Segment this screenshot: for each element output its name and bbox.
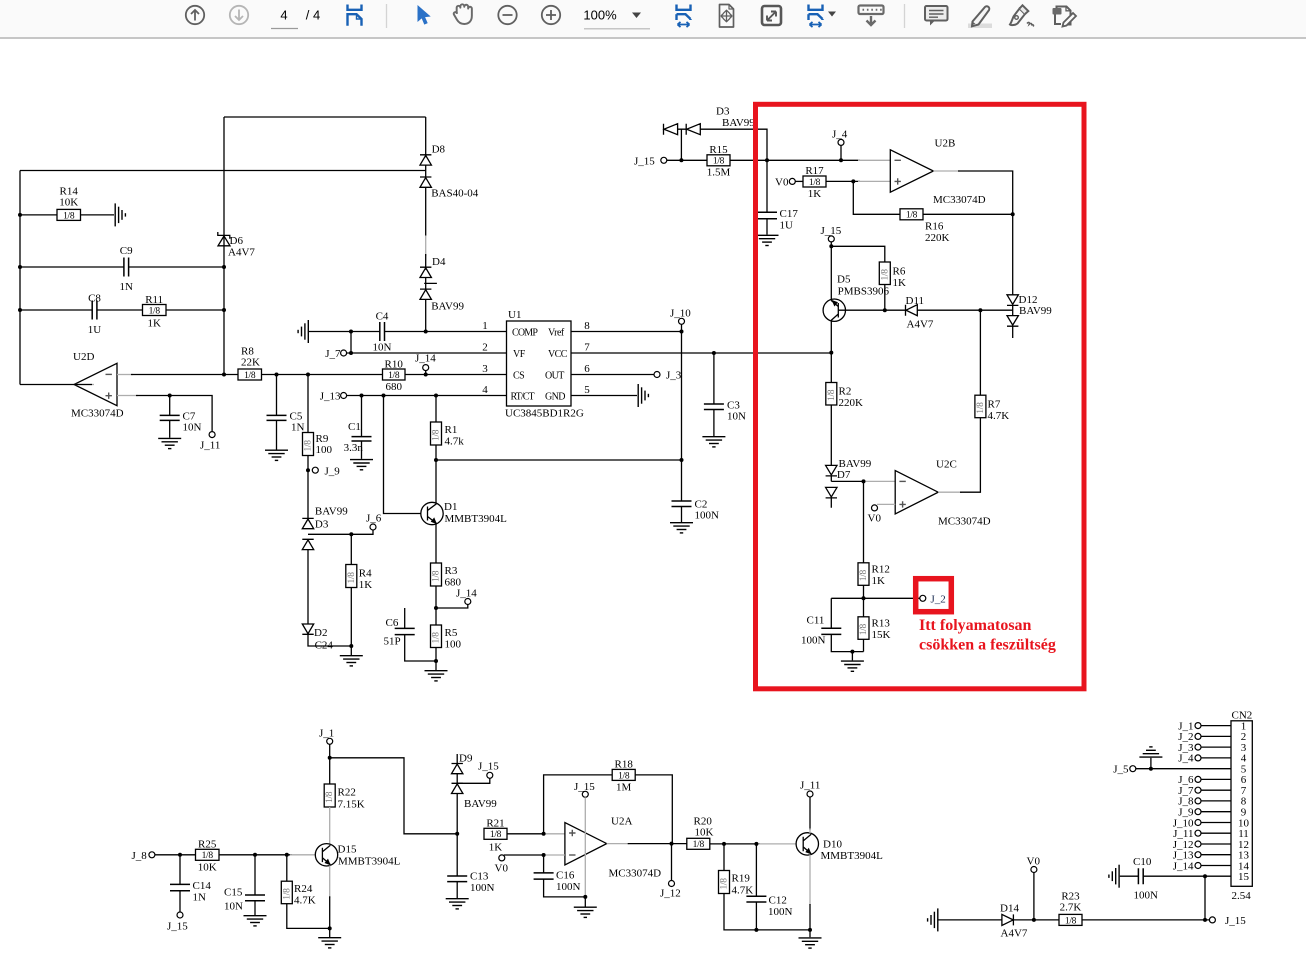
wire C8-R11 net [20, 309, 224, 311]
svg-text:6: 6 [584, 363, 590, 375]
svg-text:/ 4: / 4 [306, 8, 320, 23]
transistor D15 MMBT3904L [315, 844, 400, 929]
connector CN2 [1231, 710, 1252, 903]
svg-text:R10: R10 [385, 359, 404, 371]
svg-text:R13: R13 [872, 618, 891, 630]
svg-text:D9: D9 [459, 753, 473, 765]
svg-text:C24: C24 [315, 640, 334, 652]
svg-text:C13: C13 [470, 871, 489, 883]
svg-text:1/8: 1/8 [906, 211, 918, 221]
wire U2C output to R7 [938, 491, 962, 493]
node J_15 top [634, 156, 667, 168]
separator [904, 4, 906, 28]
node D4-COMP junction [424, 330, 428, 334]
node R19 junction [722, 842, 726, 846]
svg-text:U2C: U2C [936, 459, 957, 471]
fill and sign tool [1053, 7, 1077, 27]
svg-text:BAS40-04: BAS40-04 [431, 187, 479, 199]
wire C9 net [20, 266, 224, 268]
node C2 top junction [680, 458, 684, 462]
resistor R22 [324, 758, 365, 844]
node V0 U2A [495, 855, 509, 875]
node R4-D2 junction [349, 644, 353, 648]
svg-text:R12: R12 [872, 564, 890, 576]
capacitor C11 [801, 598, 864, 651]
diode D3 dual BAV99 [302, 506, 348, 550]
capacitor C16 [534, 855, 586, 897]
svg-text:1/8: 1/8 [149, 306, 161, 316]
svg-text:U2A: U2A [611, 816, 632, 828]
svg-text:MMBT3904L: MMBT3904L [338, 856, 401, 868]
capacitor C8 [88, 293, 102, 337]
svg-text:4.7K: 4.7K [988, 410, 1010, 422]
fit page icon [720, 5, 734, 28]
node R1-C2 junction [434, 458, 438, 462]
node J_2 pin2 [1178, 731, 1231, 743]
ground right of R14 [115, 203, 125, 226]
svg-text:MC33074D: MC33074D [938, 516, 991, 528]
svg-text:J_12: J_12 [660, 888, 681, 900]
wire J_8 to R25 [155, 854, 196, 856]
svg-text:10N: 10N [183, 422, 202, 434]
node J_1 pin1 [1178, 720, 1231, 732]
svg-text:4.7K: 4.7K [732, 885, 754, 897]
svg-text:2: 2 [482, 342, 488, 354]
svg-text:D11: D11 [906, 295, 925, 307]
wire R1 to C2 [436, 459, 682, 461]
node V0 U2C [868, 504, 896, 524]
node rail-C9 junction [18, 265, 22, 269]
svg-text:10K: 10K [695, 827, 714, 839]
svg-text:A4V7: A4V7 [228, 247, 255, 259]
sign tool [1010, 5, 1033, 26]
resistor R5 [431, 608, 462, 661]
svg-text:D2: D2 [314, 627, 327, 639]
node J_9 pin9 [1178, 807, 1231, 819]
ground D10 [799, 930, 822, 948]
svg-text:1/8: 1/8 [693, 840, 705, 850]
svg-text:1/8: 1/8 [976, 402, 986, 414]
node J_2 [920, 594, 946, 606]
ground R4 [340, 646, 363, 666]
svg-text:R19: R19 [732, 873, 751, 885]
page number input [271, 8, 320, 29]
svg-text:10N: 10N [224, 901, 243, 913]
node J_15 bottom right [1209, 915, 1246, 927]
node J_3 [654, 370, 682, 382]
node CS junction [424, 373, 428, 377]
op-amp U2D [71, 351, 124, 420]
transistor D10 MMBT3904L [796, 797, 883, 930]
capacitor C17 [757, 160, 798, 234]
node rail-C8 junction [18, 308, 22, 312]
node J_10 [670, 308, 691, 334]
node pin15 junction [1203, 874, 1207, 878]
node J_15 mid [821, 225, 842, 248]
svg-text:100: 100 [445, 639, 462, 651]
svg-text:100N: 100N [801, 635, 826, 647]
wire V0 to U2A minus [504, 854, 545, 856]
node J_11 pin11 [1173, 828, 1231, 840]
node J_13 pin13 [1173, 850, 1231, 862]
transistor D1 MMBT3904L [421, 460, 507, 563]
node C9-x224 junction [222, 265, 226, 269]
svg-text:1K: 1K [359, 579, 373, 591]
svg-text:D6: D6 [230, 235, 244, 247]
svg-text:GND: GND [545, 392, 565, 403]
svg-text:J_15: J_15 [821, 225, 842, 237]
svg-text:MC33074D: MC33074D [71, 408, 124, 420]
wire COMP net [309, 331, 507, 333]
hand tool [454, 4, 472, 24]
svg-text:1/8: 1/8 [859, 570, 869, 582]
wire GND pin5 [571, 395, 637, 397]
node output J_12 junction [670, 842, 674, 846]
comment tool [925, 6, 948, 26]
diode D14 A4V7 [1000, 903, 1028, 940]
svg-text:J_4: J_4 [1178, 753, 1194, 765]
wire D3 mid to J_6 [308, 530, 373, 534]
svg-text:10N: 10N [727, 411, 746, 423]
node VCC-R2 junction [829, 351, 833, 355]
wire CS net [405, 374, 507, 376]
node J_10 pin10 [1173, 817, 1231, 829]
svg-text:J_13: J_13 [320, 391, 341, 403]
svg-text:1/8: 1/8 [1065, 916, 1077, 926]
node J_1 [319, 728, 334, 760]
svg-text:1M: 1M [616, 782, 632, 794]
diode D2 [302, 550, 351, 652]
svg-text:R7: R7 [988, 399, 1001, 411]
node J_7 [325, 348, 346, 360]
node J_4 junction [839, 158, 843, 162]
wire J_1 to R21 [330, 758, 458, 834]
svg-text:U1: U1 [508, 309, 521, 321]
wire feedback to R16 [853, 181, 900, 214]
svg-text:4: 4 [280, 8, 287, 23]
svg-text:R24: R24 [294, 883, 313, 895]
node J_12 [660, 844, 681, 900]
node J_12 pin12 [1173, 839, 1231, 851]
zoom out [498, 6, 516, 24]
node J_8 [132, 850, 155, 862]
svg-text:R3: R3 [445, 565, 458, 577]
svg-text:R5: R5 [445, 627, 458, 639]
wire U2B output [933, 170, 960, 172]
svg-text:1/8: 1/8 [713, 157, 725, 167]
svg-text:10K: 10K [198, 862, 217, 874]
node J_7 pin7 [1178, 785, 1231, 797]
svg-text:D10: D10 [823, 839, 842, 851]
svg-text:3: 3 [482, 363, 488, 375]
svg-text:C15: C15 [224, 887, 243, 899]
svg-text:10N: 10N [373, 342, 392, 354]
resistor R12 [858, 481, 890, 598]
node VF junction [349, 351, 353, 355]
resistor R6 [879, 262, 906, 310]
scrolling mode icon [859, 6, 884, 26]
svg-text:C17: C17 [780, 208, 799, 220]
svg-text:csökken a feszültség: csökken a feszültség [919, 637, 1056, 654]
node J_11 bottom [800, 780, 820, 798]
wire J_2 net [831, 597, 920, 599]
node R6-base junction [883, 308, 887, 312]
svg-text:C12: C12 [769, 895, 787, 907]
wire J_7 stub [350, 332, 352, 354]
wire VF net [347, 352, 507, 354]
svg-text:BAV99: BAV99 [431, 300, 464, 312]
svg-text:D7: D7 [837, 469, 851, 481]
svg-text:VF: VF [513, 349, 526, 360]
svg-text:R22: R22 [338, 787, 356, 799]
page view icon [348, 5, 362, 26]
previous page button [186, 6, 204, 24]
capacitor C1 [344, 396, 372, 459]
wire left rail [19, 171, 21, 385]
svg-text:100N: 100N [556, 881, 581, 893]
next page button (disabled) [230, 6, 248, 24]
svg-text:C16: C16 [556, 870, 575, 882]
node C7 junction [168, 394, 172, 398]
resistor R9 [303, 375, 333, 519]
resistor R4 [346, 534, 373, 646]
svg-text:1/8: 1/8 [304, 440, 314, 452]
svg-text:J_11: J_11 [200, 440, 220, 452]
wire y171.5 [20, 170, 426, 172]
wire grey segment D8-D4 [425, 236, 427, 256]
svg-text:100N: 100N [470, 882, 495, 894]
svg-text:V0: V0 [868, 513, 882, 525]
node J_15 bottom left [167, 912, 188, 933]
svg-text:1U: 1U [780, 220, 794, 232]
wire R25 to D15 base [219, 854, 292, 856]
wire R16 to output [923, 213, 1013, 215]
node C5 junction [275, 373, 279, 377]
svg-text:1N: 1N [291, 422, 305, 434]
svg-text:4.7K: 4.7K [294, 895, 316, 907]
ground C3 [702, 437, 725, 447]
resistor R20 [687, 816, 714, 851]
node J_13 [320, 391, 347, 403]
svg-text:1: 1 [482, 320, 488, 332]
svg-text:2.54: 2.54 [1232, 890, 1252, 902]
node J_6 [366, 513, 382, 531]
node J_15 U2A power [574, 781, 595, 897]
svg-text:1N: 1N [119, 281, 133, 293]
svg-text:J_15: J_15 [167, 921, 188, 933]
wire R17 to U2B plus [826, 180, 860, 182]
node D10 emitter junction [808, 928, 812, 932]
capacitor C15 [224, 855, 265, 915]
capacitor C4 [373, 311, 392, 354]
node U2A ground junction [583, 895, 587, 899]
diode D12 dual BAV99 [1007, 294, 1052, 338]
svg-text:1/8: 1/8 [282, 888, 292, 900]
svg-text:1/8: 1/8 [202, 851, 214, 861]
svg-text:BAV99: BAV99 [315, 506, 348, 518]
diode D8 dual BAS40-04 [420, 117, 479, 236]
svg-text:MMBT3904L: MMBT3904L [445, 513, 508, 525]
node R1 junction [434, 394, 438, 398]
svg-text:R17: R17 [805, 165, 824, 177]
node J_4 pin4 [1178, 753, 1231, 765]
svg-text:15: 15 [1238, 871, 1250, 883]
svg-text:PMBS3906: PMBS3906 [838, 286, 890, 298]
wire U2A output [607, 843, 629, 845]
svg-text:J_1: J_1 [319, 728, 334, 740]
svg-text:BAV99: BAV99 [464, 798, 497, 810]
wire R20 to D10 base [710, 843, 760, 845]
svg-text:1K: 1K [489, 842, 503, 854]
node V0 top [775, 176, 795, 188]
svg-text:R18: R18 [615, 759, 634, 771]
svg-text:C14: C14 [193, 880, 212, 892]
wire J_15 to R15 [667, 159, 707, 161]
resistor R8 [238, 346, 262, 381]
capacitor C3 [704, 353, 746, 436]
node V0-D14 junction [1032, 918, 1036, 922]
svg-text:100%: 100% [583, 8, 617, 23]
svg-text:1.5M: 1.5M [707, 167, 731, 179]
svg-text:Itt folyamatosan: Itt folyamatosan [919, 617, 1032, 634]
node output-R16 junction [1011, 212, 1015, 216]
diode D9 dual BAV99 [452, 753, 498, 834]
svg-text:1K: 1K [872, 575, 886, 587]
svg-text:J_9: J_9 [325, 466, 341, 478]
svg-text:220K: 220K [925, 232, 950, 244]
capacitor C5 [267, 375, 305, 450]
svg-text:D5: D5 [837, 274, 851, 286]
node R23-J15 junction [1203, 918, 1207, 922]
svg-text:C10: C10 [1133, 856, 1152, 868]
svg-text:100: 100 [316, 444, 333, 456]
resistor R15 [707, 144, 731, 179]
ground C7 [158, 438, 181, 448]
svg-text:Vref: Vref [548, 328, 565, 339]
svg-text:R2: R2 [839, 386, 852, 398]
wire D7 mid to U2C minus [831, 480, 865, 482]
node R12-R13 junction [862, 596, 866, 600]
node D15 emitter junction [328, 926, 332, 930]
resistor R13 [858, 598, 891, 651]
svg-text:1/8: 1/8 [432, 632, 442, 644]
svg-text:2.7K: 2.7K [1060, 902, 1082, 914]
resistor R24 [281, 855, 329, 929]
diode D3 dual BAV99 horizontal [664, 106, 768, 161]
diode D6 A4V7 zener [218, 232, 256, 259]
ground pin5 [638, 384, 648, 407]
svg-text:J_14: J_14 [1173, 860, 1194, 872]
svg-text:J_10: J_10 [670, 308, 691, 320]
svg-text:1/8: 1/8 [859, 624, 869, 636]
svg-text:100N: 100N [695, 510, 720, 522]
diode D11 A4V7 [906, 295, 934, 331]
node J_3 pin3 [1178, 742, 1231, 754]
svg-text:J_14: J_14 [456, 588, 477, 600]
svg-text:1/8: 1/8 [880, 269, 890, 281]
svg-text:1/8: 1/8 [827, 389, 837, 401]
svg-text:J_4: J_4 [832, 129, 848, 141]
svg-text:J_3: J_3 [666, 370, 682, 382]
node J_14 pin14 [1173, 860, 1231, 872]
svg-text:R4: R4 [359, 568, 372, 580]
svg-text:1/8: 1/8 [432, 429, 442, 441]
wire top loop [224, 116, 426, 118]
svg-text:C6: C6 [386, 617, 399, 629]
wire D1 base [384, 396, 422, 514]
svg-text:V0: V0 [775, 176, 789, 188]
svg-text:V0: V0 [1027, 856, 1041, 868]
svg-text:1N: 1N [193, 892, 207, 904]
node C4 left junction [349, 330, 353, 334]
svg-text:RT/CT: RT/CT [511, 392, 535, 403]
svg-text:1K: 1K [808, 188, 822, 200]
svg-text:1/8: 1/8 [720, 878, 730, 890]
capacitor C14 [170, 855, 211, 912]
ground D15 [318, 928, 341, 948]
wire vertical x224 [223, 117, 225, 375]
node D9 junction [455, 832, 459, 836]
resistor R17 [803, 165, 826, 200]
svg-text:C9: C9 [120, 245, 133, 257]
red annotation small box J_2 [916, 579, 952, 612]
svg-text:1/8: 1/8 [244, 371, 256, 381]
node rail-R14 junction [18, 213, 22, 217]
node feedback U2A junction [542, 832, 546, 836]
resistor R11 [143, 294, 167, 330]
wire U2D output [75, 384, 95, 386]
node J_5 pin5 [1113, 764, 1231, 776]
svg-text:8: 8 [584, 320, 590, 332]
node C1 junction [360, 394, 364, 398]
zoom in [542, 6, 560, 24]
svg-text:R15: R15 [709, 144, 728, 156]
wire OUT net [571, 374, 654, 376]
svg-text:J_8: J_8 [132, 850, 148, 862]
red annotation text [919, 617, 1056, 654]
svg-text:V0: V0 [495, 863, 509, 875]
svg-text:J_11: J_11 [800, 780, 820, 792]
wire U2A feedback loop [544, 775, 613, 834]
svg-text:MC33074D: MC33074D [609, 868, 662, 880]
node C12 junction [754, 842, 758, 846]
ground J_5 [1139, 747, 1162, 769]
wire J_15 to pin15 [1204, 876, 1206, 920]
wire Vref net [571, 331, 682, 333]
node J_11 [200, 432, 220, 452]
svg-text:1/8: 1/8 [809, 178, 821, 188]
op-amp U2B [890, 138, 985, 207]
capacitor C10 [1120, 856, 1231, 902]
svg-text:C11: C11 [807, 615, 825, 627]
svg-text:D1: D1 [444, 501, 457, 513]
svg-text:1U: 1U [88, 324, 102, 336]
wire R23 to J_15 [1082, 919, 1209, 921]
svg-text:5: 5 [584, 384, 590, 396]
svg-text:15K: 15K [872, 629, 891, 641]
diode D7 dual BAV99 [826, 458, 872, 508]
transistor D5 PMBS3906 [823, 246, 889, 352]
op-amp U2A [565, 816, 661, 880]
svg-text:D8: D8 [432, 144, 446, 156]
node R5-C6 junction [434, 659, 438, 663]
PDF viewer toolbar [0, 0, 1306, 39]
svg-text:1/8: 1/8 [388, 371, 400, 381]
svg-text:R1: R1 [445, 424, 458, 436]
wire J_15 to R6 [831, 246, 885, 262]
svg-text:R25: R25 [198, 839, 217, 851]
node J_15 D9 [457, 761, 499, 784]
